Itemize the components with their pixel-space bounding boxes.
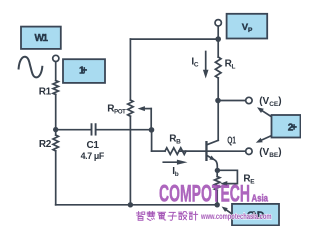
svg-text:W1: W1	[35, 33, 49, 44]
svg-text:4.7 μF: 4.7 μF	[81, 151, 105, 161]
svg-text:www.compotechasia.com: www.compotechasia.com	[200, 212, 271, 221]
svg-text:2+: 2+	[288, 123, 297, 134]
svg-text:1+: 1+	[79, 66, 87, 77]
svg-text:Q1: Q1	[227, 135, 236, 146]
svg-text:Asia: Asia	[252, 193, 269, 204]
svg-text:C1: C1	[87, 140, 100, 151]
svg-text:R1: R1	[39, 86, 52, 97]
svg-text:R2: R2	[39, 139, 52, 150]
svg-text:COMPOTECH: COMPOTECH	[159, 180, 250, 207]
